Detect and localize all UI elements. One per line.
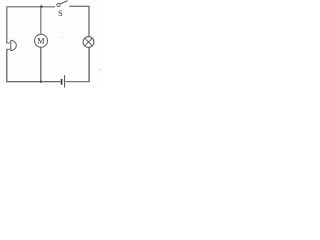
svg-text:M: M bbox=[37, 36, 44, 45]
svg-text:S: S bbox=[58, 9, 62, 18]
